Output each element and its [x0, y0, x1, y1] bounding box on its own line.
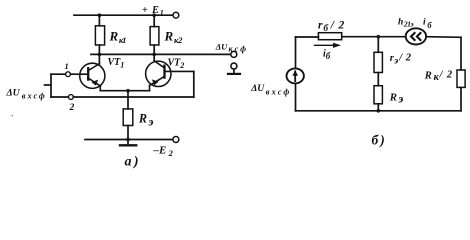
wire b right bottom lead: [460, 87, 462, 110]
svg-text:/2: /2: [439, 69, 453, 80]
wire collector rail to output: [91, 53, 231, 55]
source dUinsf: [287, 68, 304, 83]
wire Re top lead: [127, 91, 129, 109]
resistor re/2: [374, 52, 382, 72]
node b top middle junction: [377, 35, 381, 39]
svg-text:1: 1: [160, 8, 164, 17]
svg-text:/2: /2: [330, 20, 345, 32]
wire VT2 base loop right side: [193, 71, 195, 97]
svg-text:э: э: [147, 115, 153, 129]
svg-text:а): а): [125, 155, 141, 170]
wire input left vertical: [50, 74, 52, 97]
terminal output dUksf: [231, 51, 237, 57]
wire b middle bottom lead: [377, 104, 379, 111]
node Rk2 top junction: [152, 13, 156, 17]
svg-text:R: R: [109, 29, 119, 44]
wire Rk2 top lead: [153, 15, 155, 26]
node Re bottom junction: [126, 138, 130, 142]
wire input 1 to base: [51, 73, 66, 75]
svg-text:/2: /2: [398, 52, 411, 63]
wire b top right: [426, 36, 461, 39]
wire top +E1 rail: [74, 14, 173, 16]
svg-text:1: 1: [65, 61, 69, 71]
svg-text:к1: к1: [119, 35, 127, 45]
terminal -E2: [173, 137, 179, 143]
terminal +E1: [173, 12, 179, 18]
svg-text:r: r: [318, 20, 323, 32]
wire input stub from dUin label: [45, 84, 52, 86]
wire b bottom rail: [296, 110, 462, 112]
svg-text:э: э: [397, 92, 403, 106]
wire b right down to Rk/2: [460, 37, 462, 70]
resistor Re b: [374, 86, 382, 104]
wire b middle between resistors: [377, 73, 379, 86]
ground: [120, 140, 136, 146]
node Rk1 bottom junction: [98, 53, 102, 57]
svg-text:ΔU: ΔU: [250, 83, 265, 94]
svg-text:2: 2: [168, 148, 174, 158]
wire Re bottom lead: [127, 126, 129, 140]
node b bottom junction: [377, 109, 381, 113]
svg-text:–E: –E: [153, 145, 167, 157]
svg-text:к2: к2: [174, 35, 183, 45]
svg-text:E: E: [151, 5, 159, 16]
resistor rb/2: [318, 33, 341, 40]
svg-text:2: 2: [69, 103, 75, 113]
wire emitter bus: [100, 90, 149, 92]
terminal input 1: [66, 72, 71, 77]
wire bottom -E2 rail: [85, 139, 173, 141]
svg-text:h: h: [398, 18, 403, 28]
svg-text:‚: ‚: [11, 110, 13, 118]
svg-text:ксф: ксф: [229, 44, 247, 53]
resistor Rk2: [150, 27, 159, 45]
wire Rk1 top lead: [98, 15, 100, 26]
svg-text:R: R: [164, 29, 174, 44]
wire Rk2 bottom lead: [153, 45, 155, 61]
svg-text:21э: 21э: [403, 20, 415, 29]
resistor Re: [123, 109, 133, 126]
current arrow ib: [315, 43, 342, 48]
svg-text:R: R: [424, 70, 432, 81]
svg-text:вхсф: вхсф: [266, 87, 290, 96]
wire input 2 lower: [51, 96, 69, 98]
terminal input 2: [69, 95, 74, 100]
wire b middle top lead: [377, 37, 379, 53]
transistor VT2: [146, 61, 194, 91]
node Rk1 top junction: [98, 13, 102, 17]
wire b top middle: [342, 36, 406, 38]
node Rk2 bottom junction: [152, 53, 156, 57]
svg-text:э: э: [393, 57, 398, 67]
transistor VT1: [70, 63, 105, 90]
node emitter junction: [126, 89, 130, 93]
wire Rk1 bottom lead: [98, 45, 100, 64]
svg-text:iб: iб: [323, 49, 331, 61]
svg-text:+: +: [142, 5, 148, 16]
wire b left bottom lead: [295, 83, 297, 110]
svg-text:VT1: VT1: [108, 57, 125, 69]
svg-text:ΔU: ΔU: [215, 41, 228, 51]
resistor Rk1: [95, 26, 104, 45]
current source h21e ib: [406, 28, 426, 44]
terminal output lower socket: [228, 63, 240, 74]
svg-text:ΔU: ΔU: [6, 88, 21, 99]
wire b left down: [295, 37, 297, 68]
svg-text:VT2: VT2: [168, 58, 185, 70]
svg-text:i: i: [423, 18, 426, 28]
resistor Rk/2: [457, 70, 465, 87]
wire b top left: [296, 36, 319, 38]
wire input 2 run to VT2 base loop: [73, 96, 194, 98]
svg-text:R: R: [389, 91, 397, 103]
svg-text:R: R: [138, 111, 147, 125]
svg-text:вхсф: вхсф: [22, 92, 45, 101]
svg-text:б): б): [372, 133, 387, 148]
svg-text:б: б: [427, 21, 432, 30]
